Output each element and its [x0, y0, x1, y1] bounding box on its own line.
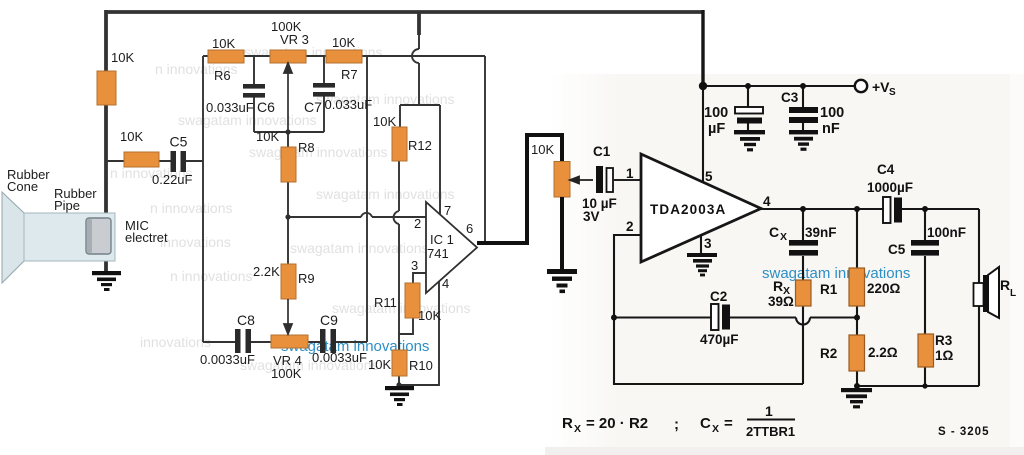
+Vs terminal [855, 80, 867, 92]
resistor R8 [281, 147, 296, 182]
svg-text:R9: R9 [298, 271, 315, 286]
svg-text:R7: R7 [341, 67, 358, 82]
resistor R2 [849, 335, 865, 371]
resistor R11 [405, 283, 420, 318]
svg-text:2: 2 [414, 216, 421, 231]
svg-text:X: X [712, 423, 719, 435]
svg-text:1: 1 [765, 403, 773, 419]
wire C7 leads [323, 56, 325, 132]
resistor R9 [281, 264, 296, 299]
svg-text:1000µF: 1000µF [867, 180, 913, 195]
svg-text:470µF: 470µF [700, 332, 739, 347]
svg-text:L: L [1010, 288, 1016, 299]
svg-text:0.033uF: 0.033uF [325, 97, 373, 112]
svg-text:R: R [1000, 277, 1010, 293]
junction dot vcc [699, 82, 707, 90]
svg-text:C5: C5 [170, 134, 188, 150]
ground R2 [841, 388, 872, 408]
capacitor C2 electrolytic [711, 304, 719, 330]
svg-text:100: 100 [704, 105, 728, 121]
svg-text:R11: R11 [374, 295, 397, 310]
svg-text:R3: R3 [935, 333, 953, 348]
wire pin5 [702, 86, 704, 183]
svg-text:2.2Ω: 2.2Ω [868, 345, 898, 360]
svg-text:C7: C7 [304, 99, 322, 115]
svg-text:100K: 100K [271, 366, 302, 381]
wire pin3 to R11 [413, 273, 427, 283]
resistor R3 [918, 334, 934, 367]
capacitor C9 plates [320, 329, 336, 353]
wire 100uF lead [747, 86, 749, 131]
svg-text:R1: R1 [820, 282, 838, 297]
potentiometer 10K at C1 [554, 162, 570, 198]
ground R10 [385, 386, 414, 406]
wire R12-R10 column with hop over pin2 row [394, 161, 399, 350]
wire left thick vertical [104, 10, 108, 272]
speaker RL [974, 267, 1000, 318]
wiper arrow into pot [570, 177, 593, 184]
svg-text:= 20 · R2: = 20 · R2 [586, 415, 648, 432]
svg-text:electret: electret [125, 230, 168, 245]
potentiometer VR3 [270, 50, 306, 63]
VR3 wiper arrow [284, 63, 292, 132]
wire pin2 row with hop over x367 [288, 213, 426, 217]
ground mic [92, 271, 121, 291]
wire R9 top lead [287, 217, 289, 264]
junction dot C3 [800, 83, 806, 89]
svg-text:10K: 10K [531, 142, 554, 157]
svg-text:swagatam innovations: swagatam innovations [332, 300, 471, 316]
wire C3 lead [802, 86, 804, 131]
svg-text:X: X [780, 231, 787, 243]
svg-text:100: 100 [820, 105, 844, 121]
svg-text:VR 3: VR 3 [280, 32, 309, 47]
svg-text:;: ; [674, 416, 679, 433]
wire mid vertical x367 [366, 56, 368, 342]
gray watermarks [110, 44, 471, 373]
svg-text:4: 4 [763, 194, 771, 209]
wire thick vcc drop [701, 10, 704, 86]
wire Cx leads [802, 209, 804, 280]
svg-text:0.033uF: 0.033uF [206, 100, 254, 115]
capacitor C8 plates [235, 329, 251, 353]
op-amp U1 741 triangle [426, 202, 477, 293]
capacitor C7 plates [313, 83, 335, 97]
ground C3 [789, 130, 818, 151]
wire T to R12 and pin7 [400, 105, 440, 214]
svg-text:3: 3 [704, 236, 712, 251]
svg-text:S: S [889, 87, 896, 98]
resistor R10 [392, 350, 407, 376]
thick wire pot to ground [560, 197, 564, 270]
svg-text:innovations: innovations [140, 334, 211, 350]
svg-text:220Ω: 220Ω [867, 281, 901, 296]
svg-text:Pipe: Pipe [54, 198, 80, 213]
capacitor C5b plates [911, 240, 939, 256]
svg-text:+V: +V [872, 79, 890, 95]
svg-text:C2: C2 [710, 289, 727, 304]
junction dot R1R2 [854, 315, 860, 321]
svg-text:C9: C9 [320, 312, 338, 328]
svg-text:2: 2 [626, 219, 634, 234]
resistor R1 [849, 268, 865, 306]
svg-text:4: 4 [442, 276, 449, 291]
svg-text:swagatam innovations: swagatam innovations [290, 240, 429, 256]
wire C1 to pin1 [613, 179, 641, 181]
svg-text:39nF: 39nF [805, 225, 837, 240]
junction dot C5 [922, 206, 928, 212]
thick output wire to pot [477, 135, 562, 243]
wire pin3 [700, 235, 702, 254]
svg-text:R2: R2 [820, 346, 837, 361]
ground 100uF [734, 130, 765, 151]
svg-text:0.0033uF: 0.0033uF [312, 350, 367, 365]
svg-text:C5: C5 [888, 242, 906, 257]
svg-text:2.2K: 2.2K [253, 264, 280, 279]
wire C6-C7 bottom row [254, 131, 324, 133]
wire R11 bottom jog [399, 318, 413, 334]
svg-text:R: R [773, 278, 783, 294]
op-amp labels [411, 203, 473, 291]
svg-text:100nF: 100nF [927, 225, 966, 240]
svg-text:7: 7 [444, 203, 451, 218]
wire feedback vertical [484, 56, 486, 242]
svg-text:R10: R10 [409, 358, 433, 373]
resistor R12 [392, 127, 407, 161]
resistor R6 [208, 50, 244, 63]
wire R2 leads [856, 371, 858, 386]
resistor Rx [796, 280, 812, 306]
svg-text:0.22uF: 0.22uF [152, 172, 193, 187]
wire top resistor row [203, 55, 485, 57]
svg-text:5: 5 [705, 169, 713, 184]
capacitor C4 electrolytic [883, 197, 891, 223]
junction dot pin2 row [285, 214, 290, 219]
wire pin2 feedback [614, 235, 641, 317]
ground pin3 [687, 253, 717, 276]
wire pin4 down and across [399, 281, 439, 385]
capacitor C3 [789, 107, 818, 123]
wire +Vs rail [703, 85, 854, 87]
junction dot R3 bottom [922, 383, 927, 388]
svg-text:10K: 10K [256, 129, 279, 144]
svg-text:10K: 10K [212, 36, 235, 51]
potentiometer VR4 [271, 335, 308, 348]
wire C5 R3 column [924, 209, 926, 386]
wire R8 leads [287, 132, 289, 217]
mic cone [2, 192, 24, 283]
svg-text:10K: 10K [332, 35, 355, 50]
svg-text:10K: 10K [373, 114, 396, 129]
junction dot Cx [800, 206, 806, 212]
formula fraction bar [747, 419, 795, 421]
formula Rx [562, 403, 795, 439]
svg-text:R6: R6 [214, 68, 231, 83]
wire bottom rail [857, 385, 979, 387]
mic rubber pipe [24, 213, 115, 261]
wire left box vertical [202, 56, 204, 342]
svg-text:3: 3 [411, 258, 418, 273]
svg-text:n innovations: n innovations [150, 200, 233, 216]
wire top rail thick [106, 10, 703, 14]
svg-text:C4: C4 [877, 162, 895, 177]
svg-text:R: R [562, 415, 573, 432]
svg-text:6: 6 [466, 221, 473, 236]
svg-text:C8: C8 [237, 312, 255, 328]
resistor 10K mic row [124, 152, 159, 167]
wire R10 bottom [398, 376, 400, 386]
wire top stub with hop [417, 12, 421, 35]
svg-text:S - 3205: S - 3205 [938, 426, 989, 438]
svg-text:X: X [574, 423, 581, 435]
svg-text:741: 741 [427, 246, 449, 261]
junction dot C6C7 row [285, 129, 290, 134]
TDA section labels [582, 90, 966, 363]
TDA2003A triangle U2 [641, 154, 761, 262]
wire C6 leads [253, 56, 255, 132]
capacitor C5 plates [171, 151, 187, 172]
svg-text:C6: C6 [257, 99, 275, 115]
svg-text:swagatam innovations: swagatam innovations [762, 265, 910, 282]
capacitor 100uF electrolytic [735, 107, 763, 114]
wire R1 leads [856, 209, 858, 335]
svg-text:C: C [769, 224, 779, 240]
svg-text:C3: C3 [781, 90, 799, 105]
VR4 wiper arrow from R9 [284, 299, 292, 334]
svg-text:0.0033uF: 0.0033uF [200, 352, 255, 367]
svg-text:1: 1 [626, 166, 634, 181]
svg-text:µF: µF [708, 121, 725, 137]
junction dot R10 ground [396, 382, 401, 387]
svg-text:2TTBR1: 2TTBR1 [746, 424, 795, 439]
svg-text:10K: 10K [418, 308, 441, 323]
wire bottom loop to Rx [614, 306, 803, 384]
junction dot R2 ground [854, 383, 860, 389]
capacitor Cx plates [789, 240, 818, 256]
svg-text:Cone: Cone [7, 179, 38, 194]
svg-text:nF: nF [822, 121, 840, 137]
wire bottom row [203, 341, 367, 343]
MIC electret body [86, 218, 111, 254]
svg-text:1Ω: 1Ω [935, 348, 954, 363]
resistor 10K input vertical [97, 71, 116, 105]
svg-text:swagatam innovations: swagatam innovations [316, 186, 455, 202]
resistor R7 [326, 50, 362, 63]
capacitor C1 electrolytic [596, 166, 603, 193]
svg-text:10K: 10K [368, 357, 391, 372]
wire C2 row with hop under Rx [614, 318, 857, 325]
svg-text:=: = [724, 415, 733, 432]
svg-text:innovations: innovations [160, 234, 231, 250]
svg-text:R8: R8 [298, 140, 315, 155]
junction dot 100uF [745, 83, 751, 89]
svg-text:C: C [700, 415, 711, 432]
ground pot [547, 269, 577, 293]
wire speaker column [978, 209, 980, 386]
bottom gray strip [545, 447, 1024, 455]
svg-text:C1: C1 [593, 144, 611, 159]
svg-text:R12: R12 [408, 138, 432, 153]
wire output row [761, 208, 979, 210]
svg-text:IC 1: IC 1 [430, 232, 454, 247]
svg-text:3V: 3V [583, 209, 600, 224]
svg-text:10K: 10K [120, 129, 143, 144]
svg-text:39Ω: 39Ω [768, 294, 794, 309]
svg-text:TDA2003A: TDA2003A [650, 202, 726, 217]
capacitor C6 plates [243, 84, 265, 98]
svg-text:n innovations: n innovations [170, 268, 253, 284]
wire mic row [106, 160, 203, 162]
left section text labels [7, 19, 554, 381]
junction dot pin2 C2 [611, 315, 617, 321]
svg-text:10K: 10K [111, 50, 134, 65]
junction dot R1 [854, 206, 860, 212]
